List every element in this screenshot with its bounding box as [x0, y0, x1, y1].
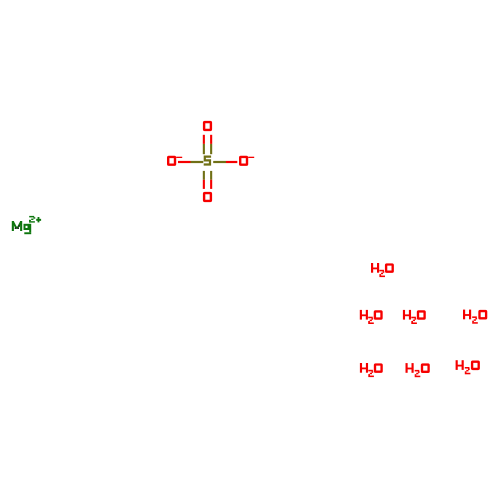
double bond S=O1 (right line)	[210, 135, 212, 154]
oxygen atom O2 (bottom)	[204, 193, 211, 201]
single bond S-O3 (left)	[178, 161, 203, 163]
water molecule H2O #3	[403, 310, 425, 324]
water molecule H2O #2	[360, 310, 382, 324]
single bond S-O4 (right)	[213, 161, 237, 163]
oxygen atom O4 (right, with minus charge)	[240, 157, 254, 165]
oxygen atom O3 (left, with minus charge)	[168, 157, 182, 165]
double bond S=O1 (left line)	[203, 135, 205, 154]
double bond S=O2 (right line)	[210, 171, 212, 189]
water molecule H2O #4	[463, 310, 486, 324]
sulfur atom S	[204, 157, 211, 165]
water molecule H2O #5	[360, 363, 382, 377]
double bond S=O2 (left line)	[203, 171, 205, 189]
water molecule H2O #6	[406, 363, 429, 377]
water molecule H2O #7	[456, 360, 479, 374]
water molecule H2O #1	[371, 263, 393, 277]
oxygen atom O1 (top)	[204, 122, 211, 130]
magnesium ion Mg2+	[12, 216, 41, 234]
